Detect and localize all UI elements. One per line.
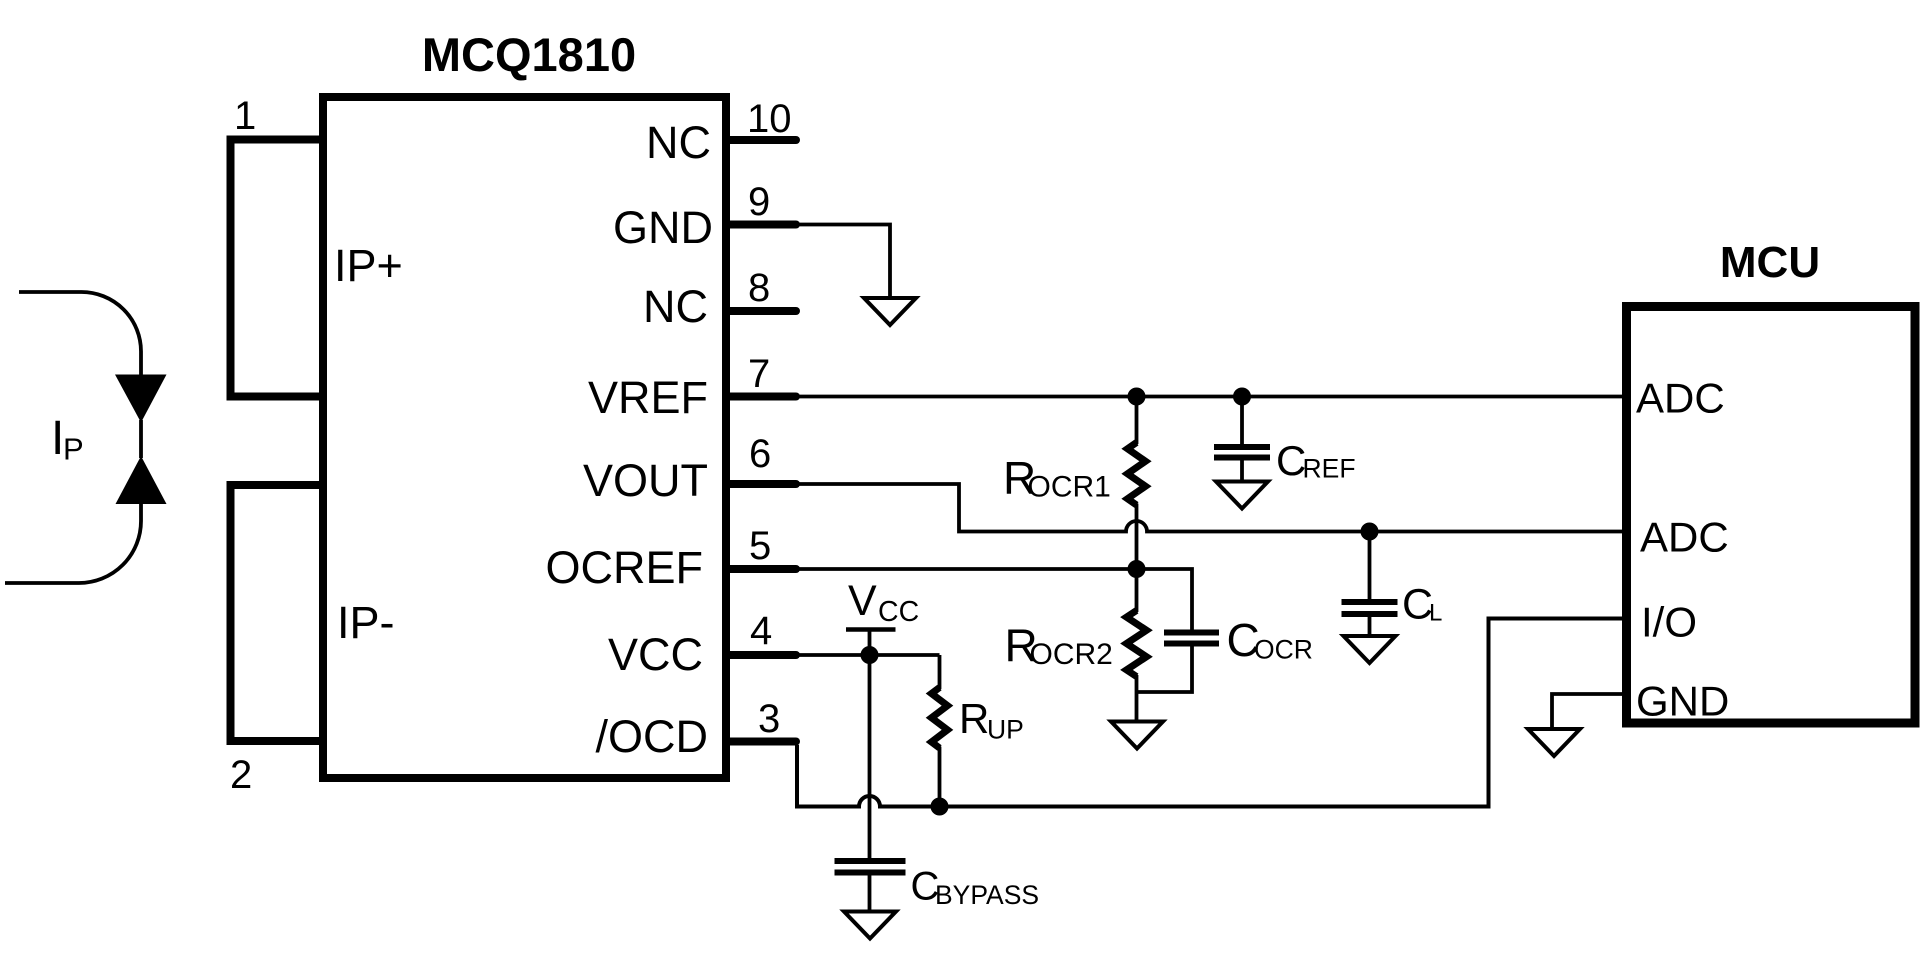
- svg-text:CC: CC: [878, 596, 919, 628]
- svg-text:5: 5: [749, 524, 771, 568]
- MCU U2 body: [1627, 307, 1916, 724]
- pin 4 stub VCC: [730, 651, 796, 659]
- pin 5 stub OCREF: [730, 565, 796, 573]
- pin 1 bracket (IP+ external strap): [231, 140, 324, 397]
- ground symbol (CBYPASS): [844, 912, 896, 939]
- svg-text:ADC: ADC: [1640, 514, 1729, 561]
- svg-text:GND: GND: [613, 202, 713, 253]
- pin 10 stub NC: [730, 136, 796, 144]
- svg-text:MCU: MCU: [1720, 238, 1820, 287]
- current source IP top wire: [19, 292, 141, 375]
- current source IP arrow up: [116, 456, 167, 504]
- svg-text:I/O: I/O: [1641, 599, 1697, 646]
- node junction VREF/CREF: [1233, 388, 1251, 406]
- svg-text:9: 9: [748, 180, 770, 224]
- wire /OCD net to MCU I/O (hop over CBYPASS lead): [797, 619, 1626, 807]
- node junction VOUT/CL: [1361, 523, 1379, 541]
- ground symbol (CREF): [1216, 482, 1268, 509]
- current source IP bottom wire: [5, 502, 141, 583]
- current source IP arrow down: [115, 375, 167, 423]
- node junction VCC/CBYPASS: [861, 646, 879, 664]
- svg-text:NC: NC: [643, 281, 708, 332]
- svg-text:10: 10: [747, 97, 792, 141]
- svg-text:4: 4: [750, 609, 772, 653]
- svg-text:L: L: [1429, 600, 1442, 627]
- svg-text:REF: REF: [1303, 454, 1356, 484]
- IC U1 MCQ1810 body: [323, 97, 726, 778]
- svg-text:IP+: IP+: [334, 240, 403, 291]
- svg-text:V: V: [848, 577, 877, 625]
- svg-text:6: 6: [749, 432, 771, 476]
- pin 3 stub /OCD: [730, 738, 796, 746]
- wire VCC net: [799, 653, 940, 657]
- ground symbol (pin 9): [864, 298, 916, 325]
- ground symbol (MCU GND): [1528, 729, 1580, 756]
- svg-text:BYPASS: BYPASS: [935, 880, 1039, 910]
- pin 2 bracket (IP- external strap): [231, 485, 324, 741]
- svg-text:OCREF: OCREF: [546, 542, 704, 593]
- svg-text:3: 3: [758, 697, 780, 741]
- resistor ROCR2: [1135, 569, 1139, 612]
- svg-text:8: 8: [748, 266, 770, 310]
- node junction VREF/ROCR1: [1128, 388, 1146, 406]
- wire pin9 GND to ground: [799, 225, 890, 299]
- pin 6 stub VOUT: [730, 480, 796, 488]
- svg-text:VOUT: VOUT: [583, 455, 708, 506]
- wire OCREF net to ROCR2 and COCR: [799, 569, 1192, 630]
- svg-text:2: 2: [230, 753, 252, 797]
- capacitor CBYPASS (lead from VCC junction, crosses /OCD line): [868, 655, 872, 858]
- pin 9 stub GND: [730, 221, 796, 229]
- wire between arrows: [139, 420, 143, 458]
- svg-text:/OCD: /OCD: [596, 711, 709, 762]
- capacitor CL: [1368, 532, 1372, 600]
- resistor RUP: [938, 655, 942, 689]
- node junction OCREF/ROCR: [1128, 560, 1146, 578]
- resistor ROCR1: [1135, 397, 1139, 445]
- ground symbol (ROCR2): [1111, 722, 1163, 749]
- svg-text:NC: NC: [646, 117, 711, 168]
- svg-text:VCC: VCC: [608, 629, 703, 680]
- svg-text:7: 7: [748, 352, 770, 396]
- node junction /OCD/RUP: [931, 798, 949, 816]
- capacitor COCR plates: [1164, 630, 1219, 636]
- capacitor CREF: [1240, 397, 1244, 445]
- wire COCR bottom to ROCR2 bottom: [1137, 647, 1193, 693]
- svg-text:P: P: [63, 432, 84, 467]
- wire VREF net to MCU ADC: [799, 395, 1626, 399]
- svg-text:OCR: OCR: [1254, 635, 1313, 665]
- svg-text:R: R: [959, 695, 989, 742]
- svg-text:IP-: IP-: [337, 597, 395, 648]
- svg-text:UP: UP: [987, 715, 1024, 745]
- svg-text:ADC: ADC: [1636, 375, 1725, 422]
- ground symbol (CL): [1344, 636, 1396, 663]
- wire MCU GND to ground: [1552, 694, 1626, 729]
- svg-text:GND: GND: [1636, 678, 1729, 725]
- power symbol VCC bar: [846, 627, 896, 632]
- svg-text:1: 1: [234, 94, 256, 138]
- pin 8 stub NC: [730, 307, 796, 315]
- svg-text:OCR2: OCR2: [1030, 638, 1113, 671]
- wire VOUT net to MCU ADC (with hop over ROCR lead): [799, 484, 1626, 532]
- svg-text:VREF: VREF: [588, 372, 708, 423]
- svg-text:OCR1: OCR1: [1028, 471, 1111, 504]
- svg-text:MCQ1810: MCQ1810: [422, 28, 636, 81]
- pin 7 stub VREF: [730, 393, 796, 401]
